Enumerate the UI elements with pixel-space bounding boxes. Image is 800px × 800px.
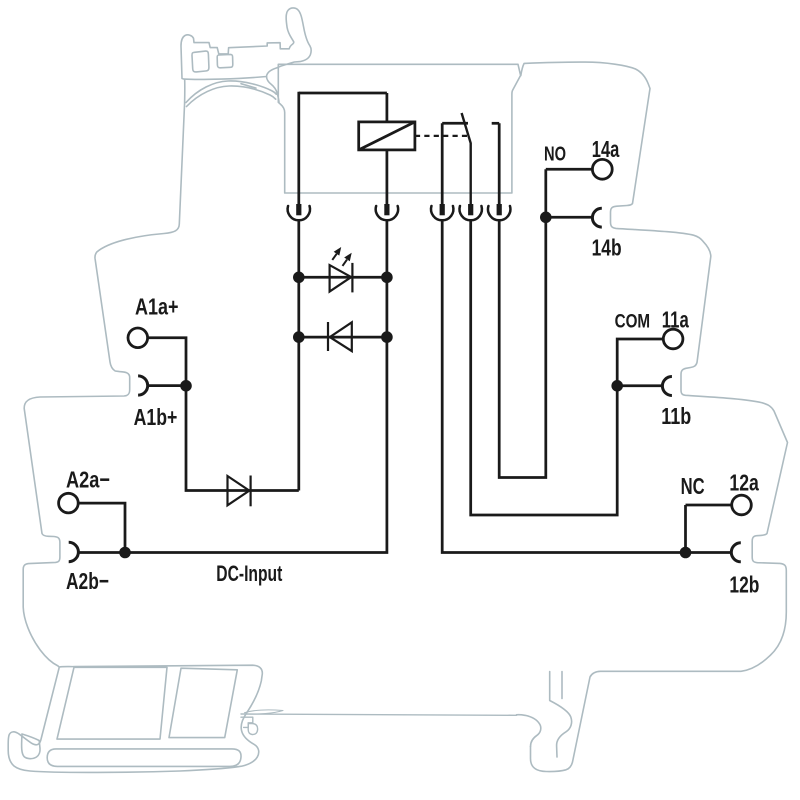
connector pin 4 (contact COM) <box>468 204 473 215</box>
junction LED right <box>381 272 393 284</box>
spring arc upper <box>186 81 276 103</box>
left foot hole 2 <box>169 668 237 737</box>
housing left side <box>8 80 262 773</box>
actuation dashed link <box>415 135 467 137</box>
NC vertical wire <box>684 505 687 553</box>
connectors (pin + socket cup) <box>288 204 511 220</box>
svg-text:NO: NO <box>544 142 566 165</box>
socket A1b <box>138 376 148 395</box>
switch blade <box>462 113 471 205</box>
terminal circles <box>59 159 752 514</box>
11b wire <box>617 384 662 387</box>
coil left wire <box>297 92 300 205</box>
connector socket cup 3 (contact NC side) <box>431 206 453 220</box>
diode row wire <box>299 336 387 339</box>
A2a wire <box>78 503 125 552</box>
spring arc tab <box>241 84 256 88</box>
svg-text:11a: 11a <box>662 307 689 333</box>
coil bottom wire <box>386 150 389 205</box>
connector socket cup 4 (contact COM) <box>460 206 482 220</box>
socket 14b <box>592 208 601 227</box>
connector pin 2 (coil A2) <box>384 204 389 215</box>
coil top pin wire <box>386 93 389 122</box>
coil+ rail wire <box>125 220 387 552</box>
svg-text:12a: 12a <box>729 470 759 496</box>
NO contact wire <box>499 169 546 477</box>
terminal 12a <box>732 495 752 515</box>
black schematic <box>299 92 499 205</box>
connector pin 3 (contact NC side) <box>440 204 445 215</box>
left foot hole 1 <box>57 667 167 739</box>
housing top right section <box>521 62 788 771</box>
A1 feed wire + diode run <box>186 386 299 491</box>
svg-text:NC: NC <box>681 473 705 499</box>
diode D3 (input series) <box>228 476 251 507</box>
socket A2b <box>69 542 79 561</box>
svg-text:COM: COM <box>615 312 651 333</box>
junction 12b <box>680 547 692 559</box>
connector socket cup 5 (contact NO side) <box>488 206 510 220</box>
switch top bar <box>442 122 468 125</box>
connector pin 1 (coil A1) <box>296 204 301 215</box>
junction A1b <box>180 380 192 392</box>
LED row wire <box>299 276 387 279</box>
LED arrows <box>332 254 347 266</box>
svg-text:A1a+: A1a+ <box>135 294 179 320</box>
relay coil K1 <box>359 122 415 150</box>
housing latch top-left <box>181 8 311 80</box>
junction A2b <box>119 547 131 559</box>
svg-text:A1b+: A1b+ <box>134 404 178 430</box>
rail clamp step <box>241 717 253 727</box>
svg-text:12b: 12b <box>729 572 759 598</box>
left foot hook curl <box>22 734 40 759</box>
relay compartment box <box>278 64 520 193</box>
terminal 14a <box>592 159 612 179</box>
connector pin 5 (contact NO side) <box>497 204 502 215</box>
COM contact wire <box>471 220 618 515</box>
switch NO-side wire <box>498 123 501 204</box>
switch fixed contact NC-side wire <box>441 123 444 204</box>
spring arc lower <box>187 86 276 107</box>
socket arcs <box>69 208 741 562</box>
latch under-lever curve <box>267 77 280 103</box>
right foot channel inner line <box>561 672 563 699</box>
LED D1 <box>330 247 353 292</box>
latch hole 2 <box>217 54 233 67</box>
junction LED left <box>293 272 305 284</box>
A1a wire <box>148 338 186 386</box>
connector socket cup 1 (coil A1) <box>288 206 310 220</box>
junction 11b <box>611 380 623 392</box>
junction diode left <box>293 331 305 343</box>
left foot slot <box>47 749 241 767</box>
socket 11b <box>662 377 672 396</box>
coil top bar wire <box>299 92 387 95</box>
connector socket cup 2 (coil A2) <box>376 206 398 220</box>
svg-text:14a: 14a <box>592 136 620 162</box>
latch hole 1 <box>192 51 209 72</box>
svg-text:11b: 11b <box>661 403 691 429</box>
terminal A1a <box>128 328 148 348</box>
svg-text:DC-Input: DC-Input <box>216 561 282 586</box>
COM terminal wire <box>617 339 663 386</box>
coil- rail wire <box>297 220 300 490</box>
rail clamp pocket <box>248 724 257 735</box>
junction diode right <box>381 331 393 343</box>
A2b wire <box>79 551 125 554</box>
terminal A2a <box>59 493 79 513</box>
svg-text:14b: 14b <box>592 235 622 261</box>
svg-text:A2b−: A2b− <box>66 568 109 594</box>
right foot channel lines <box>550 672 572 758</box>
A1b wire <box>147 384 186 387</box>
14b wire <box>546 216 593 219</box>
NO terminal wire <box>546 168 592 171</box>
socket 12b <box>731 543 741 562</box>
diode D2 (reverse) <box>328 322 352 351</box>
DIN rail left end lens <box>245 710 284 714</box>
right foot clamp curl <box>517 715 541 747</box>
switch NO-side tick <box>492 122 500 125</box>
NC contact wire <box>442 220 731 552</box>
terminal 11a <box>663 329 683 349</box>
junction 14b <box>540 212 552 224</box>
DIN rail line <box>241 714 517 715</box>
svg-text:A2a−: A2a− <box>66 467 110 493</box>
NC terminal wire <box>686 504 732 507</box>
